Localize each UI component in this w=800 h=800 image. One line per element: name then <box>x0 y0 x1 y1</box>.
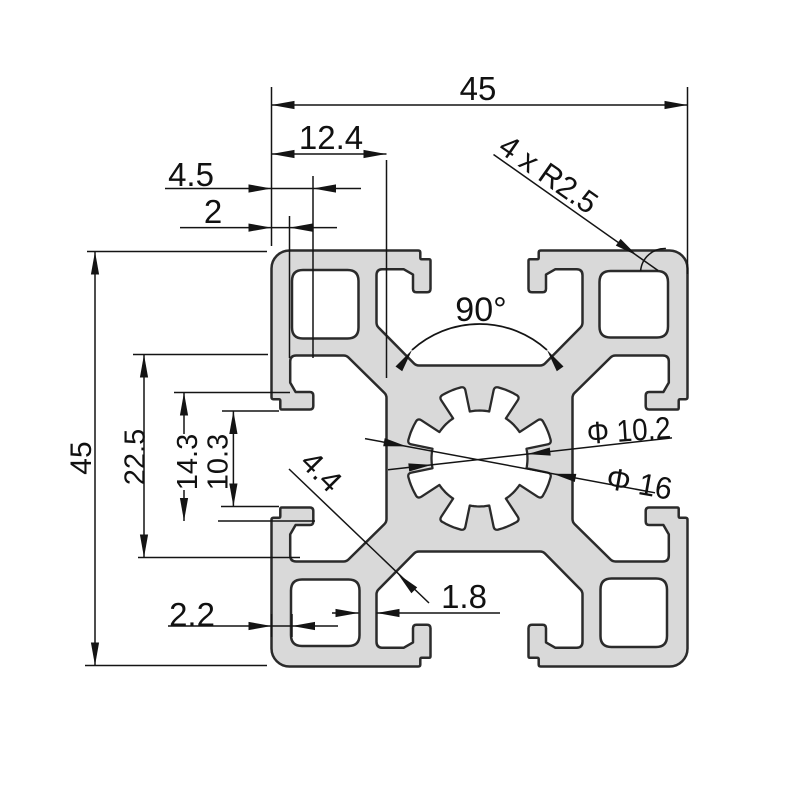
dimension 2.2 <box>168 596 338 637</box>
svg-text:45: 45 <box>460 70 497 107</box>
svg-text:1.8: 1.8 <box>441 578 487 615</box>
dimension 90 degrees (V-groove angle) <box>396 291 564 371</box>
corner screw-boss hole top-right <box>600 271 669 338</box>
dimension 45 (left height) <box>65 252 267 666</box>
svg-text:12.4: 12.4 <box>299 119 363 156</box>
dimension 12.4 <box>272 119 387 378</box>
dimension 4 x R2.5 (corner radius) <box>493 128 666 271</box>
corner screw-boss hole bottom-right <box>601 579 668 648</box>
dimension 45 (top width) <box>272 70 688 274</box>
svg-text:45: 45 <box>65 441 98 474</box>
svg-text:4.5: 4.5 <box>168 156 214 193</box>
dimension diameter 10.2 (bore) <box>388 410 672 471</box>
dimension 10.3 <box>203 411 280 507</box>
profile outer contour (45x45 extrusion body with four T-slots) <box>272 251 688 667</box>
dimension 4.4 (web thickness) <box>289 444 429 603</box>
dimension 2 <box>180 193 337 358</box>
dimension 4.5 <box>165 156 361 358</box>
svg-text:22.5: 22.5 <box>120 429 152 485</box>
svg-text:90°: 90° <box>455 291 506 329</box>
corner screw-boss hole top-left <box>292 270 359 339</box>
svg-text:2: 2 <box>204 193 222 230</box>
dimension 22.5 <box>120 355 301 558</box>
svg-text:10.3: 10.3 <box>203 434 235 490</box>
dimension 14.3 <box>172 393 315 522</box>
corner screw-boss hole bottom-left <box>291 580 360 647</box>
svg-text:14.3: 14.3 <box>172 434 204 490</box>
center spline bore (diameter 10.2 core hole with 8 slots to diameter 16) <box>408 387 551 530</box>
svg-text:2.2: 2.2 <box>169 596 215 633</box>
dimension diameter 16 (spline outer) <box>365 438 675 507</box>
svg-text:Φ 10.2: Φ 10.2 <box>586 410 672 451</box>
dimension 1.8 <box>332 578 500 617</box>
